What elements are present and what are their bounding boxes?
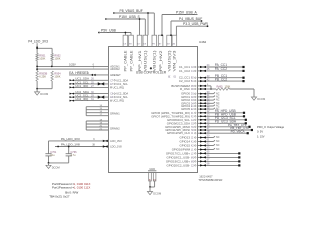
svg-text:100K: 100K: [54, 75, 60, 79]
svg-text:100K: 100K: [225, 86, 231, 89]
svg-text:E8: E8: [129, 44, 132, 46]
no-connect pin at y=145.5: [198, 142, 220, 147]
wire BUSPOWERZ stub: [198, 84, 212, 90]
svg-text:Port1Password =: Port1Password =: [52, 186, 74, 190]
wire PA_LDO_1V8: [55, 143, 109, 148]
svg-text:PA_CC2: PA_CC2: [215, 67, 227, 71]
wire PA_LDO_3V3: [49, 137, 109, 142]
ground DCOM (capacitors): [46, 162, 69, 169]
note: PDO output voltage: [257, 125, 285, 139]
svg-text:NC: NC: [216, 148, 220, 151]
U462 pin names (top, vertical): [124, 50, 177, 78]
svg-text:NC: NC: [216, 144, 220, 147]
wire UC1_SCL: [70, 80, 109, 85]
svg-text:D8: D8: [143, 44, 147, 46]
svg-text:VBUS(2): VBUS(2): [167, 51, 171, 72]
wire PA_HPD_USB: [198, 109, 246, 114]
capacitor C761: [45, 141, 56, 163]
svg-text:PP_HV1: PP_HV1: [138, 51, 142, 72]
svg-text:DCOM: DCOM: [153, 192, 161, 196]
wire P15V_USB_S: [105, 15, 145, 35]
svg-text:C1_CC2: C1_CC2: [179, 69, 190, 73]
resistor R465 row: [198, 86, 255, 91]
svg-text:UC2_IRQ: UC2_IRQ: [113, 99, 124, 103]
U462 pin names (left side): [110, 64, 128, 148]
svg-text:R465: R465: [217, 86, 224, 89]
svg-text:VIN_3V3: VIN_3V3: [173, 51, 177, 72]
resistor R952: [51, 53, 61, 60]
svg-text:D7: D7: [138, 44, 142, 46]
wire DRAIN1 pin comb: [86, 105, 108, 116]
wire C1_USB+: [198, 150, 241, 155]
wire UC1_SDA: [70, 77, 109, 82]
svg-text:GPIO20/C2_USB-: GPIO20/C2_USB-: [167, 163, 190, 167]
svg-text:R_OSC: R_OSC: [180, 87, 190, 91]
svg-text:UC2_SDA: UC2_SDA: [116, 92, 128, 96]
svg-text:PP_CABLE: PP_CABLE: [124, 50, 128, 72]
no-connect pin at y=103.3: [198, 100, 220, 105]
wire UC1_IRQ: [70, 84, 109, 89]
svg-text:ADCIN2: ADCIN2: [110, 67, 120, 71]
svg-text:NC: NC: [216, 136, 220, 139]
svg-text:C2_CC2: C2_CC2: [179, 79, 190, 83]
wire C1_USB-: [198, 154, 241, 159]
svg-text:PD_VBCA: PD_VBCA: [231, 129, 245, 133]
resistor R954: [51, 71, 61, 81]
wire P3.3_USB_PWR: [176, 22, 208, 35]
svg-text:0: 5V: 0: 5V: [257, 130, 263, 134]
U462 pin names (right side): [151, 65, 196, 167]
svg-text:(2): (2): [174, 75, 177, 78]
wire PA_CC2: [198, 67, 245, 72]
wire EA_HRESET: [69, 71, 109, 76]
svg-text:A1: A1: [149, 178, 152, 181]
svg-text:P4_LDO_3V3: P4_LDO_3V3: [28, 40, 48, 44]
U462 GND pin name: [148, 167, 156, 171]
svg-text:10u: 10u: [50, 154, 55, 157]
svg-text:1: 15V: 1: 15V: [257, 135, 265, 139]
wire PA_TBT_CTL: [198, 123, 251, 128]
no-connect pin at y=141.5: [198, 138, 220, 143]
svg-text:LDO_1V8: LDO_1V8: [110, 145, 122, 149]
svg-text:PP_HV2: PP_HV2: [159, 51, 163, 72]
no-connect pin at y=106.0: [198, 102, 220, 107]
svg-text:B7: B7: [159, 44, 162, 46]
wire ADCIN1 (0.25V): [36, 61, 108, 72]
svg-text:DCOM: DCOM: [52, 165, 60, 169]
svg-text:4.7u: 4.7u: [71, 154, 76, 157]
wire PA_CC1: [198, 63, 245, 68]
no-connect pin at y=96.9: [198, 93, 220, 98]
wire P4_VBUS_BUF: [170, 17, 202, 36]
svg-text:UC1_SCL: UC1_SCL: [116, 82, 128, 86]
no-connect pin at y=100.1: [198, 96, 220, 101]
wire DRAIN2 pin comb: [86, 119, 108, 130]
svg-text:UC2_IRQ: UC2_IRQ: [75, 97, 89, 101]
ground DCOM (R465): [251, 89, 265, 101]
svg-text:100K: 100K: [54, 56, 60, 60]
svg-text:UC1_SDA: UC1_SDA: [116, 78, 128, 82]
U462 top pin boxes: [123, 35, 177, 46]
ground DCOM (U462 GND): [147, 187, 161, 196]
svg-text:HRESET: HRESET: [110, 73, 121, 77]
svg-text:DCOM: DCOM: [257, 97, 265, 101]
U462 pin numbers (top): [124, 43, 176, 46]
wire UC2_SCL: [70, 94, 109, 99]
wire PD_I2C3_SDA: [198, 120, 247, 125]
svg-text:DRAIN2: DRAIN2: [110, 126, 120, 130]
resistor R953: [36, 71, 48, 81]
resistor R951: [36, 53, 46, 60]
svg-text:P8_VBUS_BUF: P8_VBUS_BUF: [120, 9, 143, 13]
svg-text:PDO_0: Output Voltage: PDO_0: Output Voltage: [257, 125, 285, 129]
note: port address table: [49, 182, 90, 198]
svg-text:F8: F8: [152, 44, 155, 46]
wire UC2_SDA: [70, 90, 109, 95]
svg-text:P5V_USB: P5V_USB: [101, 29, 117, 33]
svg-text:DCOM: DCOM: [40, 92, 48, 96]
wire divider bottom join: [36, 81, 52, 90]
svg-text:UC1_IRQ: UC1_IRQ: [113, 85, 124, 89]
no-connect pin at y=149.5: [198, 146, 220, 151]
wire PB_CC2: [198, 77, 245, 82]
U462 reference designator: [199, 40, 207, 44]
part number 1622-6457: [199, 174, 213, 178]
svg-text:PA_LDO_1V8: PA_LDO_1V8: [61, 143, 80, 147]
wire P4_LDO_3V3 vertical: [36, 43, 38, 53]
wire PB_HPD_USB: [198, 113, 246, 118]
IC U462 body (USB PD controller): [109, 47, 198, 173]
no-connect pin at y=137.5: [198, 134, 220, 139]
wire PD_VBCA: [198, 129, 249, 134]
svg-text:P15V_USB_A: P15V_USB_A: [176, 11, 198, 15]
svg-text:100K: 100K: [39, 56, 45, 60]
svg-text:(2): (2): [168, 75, 171, 78]
ground DCOM (divider): [35, 89, 49, 96]
wire GND pins join: [149, 181, 155, 188]
svg-text:P3.3_USB_PWR: P3.3_USB_PWR: [183, 22, 209, 26]
wire C2_USB+: [198, 158, 241, 163]
power net label P4_LDO_3V3: [28, 40, 48, 44]
wire PB_CC1: [198, 74, 245, 79]
svg-text:NC: NC: [216, 140, 220, 143]
svg-text:PB_CC2: PB_CC2: [215, 77, 228, 81]
svg-text:PP_CABLE: PP_CABLE: [129, 50, 133, 72]
svg-text:P15V_USB_S: P15V_USB_S: [119, 15, 141, 19]
svg-text:6.25K: 6.25K: [39, 75, 46, 79]
wire P5V_USB: [98, 29, 131, 36]
svg-text:P4_VBUS_BUF: P4_VBUS_BUF: [179, 17, 202, 21]
svg-text:PA_LDO_3V3: PA_LDO_3V3: [61, 137, 80, 141]
svg-text:1, 0100 111X: 1, 0100 111X: [74, 186, 91, 190]
svg-text:C8: C8: [124, 44, 128, 46]
svg-text:U462: U462: [199, 40, 207, 44]
wire PB_TBT_CTL: [198, 126, 254, 131]
wire branch to R952: [36, 47, 52, 53]
wire C2_USB-: [198, 162, 241, 167]
wire UC2_IRQ: [70, 97, 109, 102]
svg-text:LDO_3V3: LDO_3V3: [110, 139, 122, 143]
wire P15V_USB_A: [161, 11, 197, 37]
svg-text:TB4 0x23, 0x27: TB4 0x23, 0x27: [49, 195, 70, 199]
part number TPS65988DJRSR: [198, 178, 223, 182]
no-connect pin at y=93.7: [198, 90, 220, 95]
svg-text:0.25V: 0.25V: [69, 62, 76, 66]
USB CONTROLLER label inside U462: [136, 67, 167, 74]
no-connect pin at y=109.1: [198, 105, 220, 110]
capacitor C766: [66, 146, 77, 163]
svg-text:VBUS(1): VBUS(1): [153, 51, 157, 72]
svg-text:A7: A7: [167, 43, 170, 46]
svg-text:B1: B1: [153, 179, 156, 181]
wire PD_I2C3_SCL: [198, 116, 247, 121]
svg-text:VBUS(1): VBUS(1): [144, 51, 148, 72]
wire ADCIN2: [36, 67, 108, 70]
svg-text:A6: A6: [173, 43, 176, 46]
svg-text:UC2_SCL: UC2_SCL: [116, 95, 128, 99]
svg-text:UC1_IRQ: UC1_IRQ: [75, 84, 89, 88]
wire P8_VBUS_BUF: [113, 9, 154, 35]
svg-text:DRAIN1: DRAIN1: [110, 111, 120, 115]
svg-text:TPS65988DJRSR: TPS65988DJRSR: [198, 178, 223, 182]
U462 GND pad pins: [149, 173, 157, 182]
